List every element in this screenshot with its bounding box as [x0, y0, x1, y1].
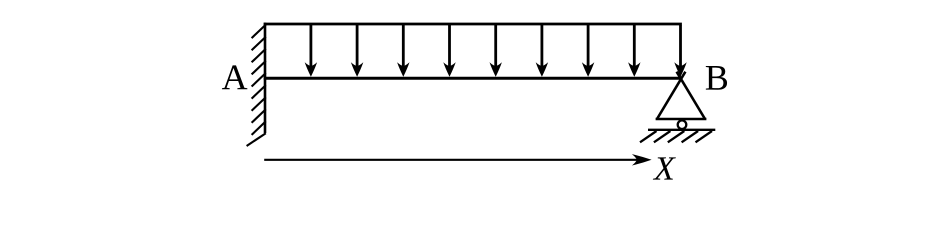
top line of distributed load [264, 23, 682, 26]
fixed support wall line at A [264, 23, 267, 133]
load arrow 2 [351, 25, 363, 77]
load arrow 5 [490, 25, 502, 77]
ground line at B [648, 129, 715, 131]
beam AB [264, 77, 682, 80]
load arrow 4 [443, 25, 455, 77]
ground hatching [640, 131, 712, 142]
load arrow 1 [305, 25, 317, 77]
label X (axis) [653, 157, 676, 179]
wall hatching [247, 25, 266, 146]
load arrow 8 [628, 25, 640, 77]
load arrow 9 (at right end) [674, 25, 686, 77]
roller circle [678, 120, 687, 129]
load arrow 3 [397, 25, 409, 77]
label B [706, 66, 727, 90]
load arrow 7 [582, 25, 594, 77]
label A [222, 65, 247, 89]
roller support triangle at B [656, 72, 707, 119]
x-axis arrow [264, 154, 651, 165]
load arrow 6 [536, 25, 548, 77]
